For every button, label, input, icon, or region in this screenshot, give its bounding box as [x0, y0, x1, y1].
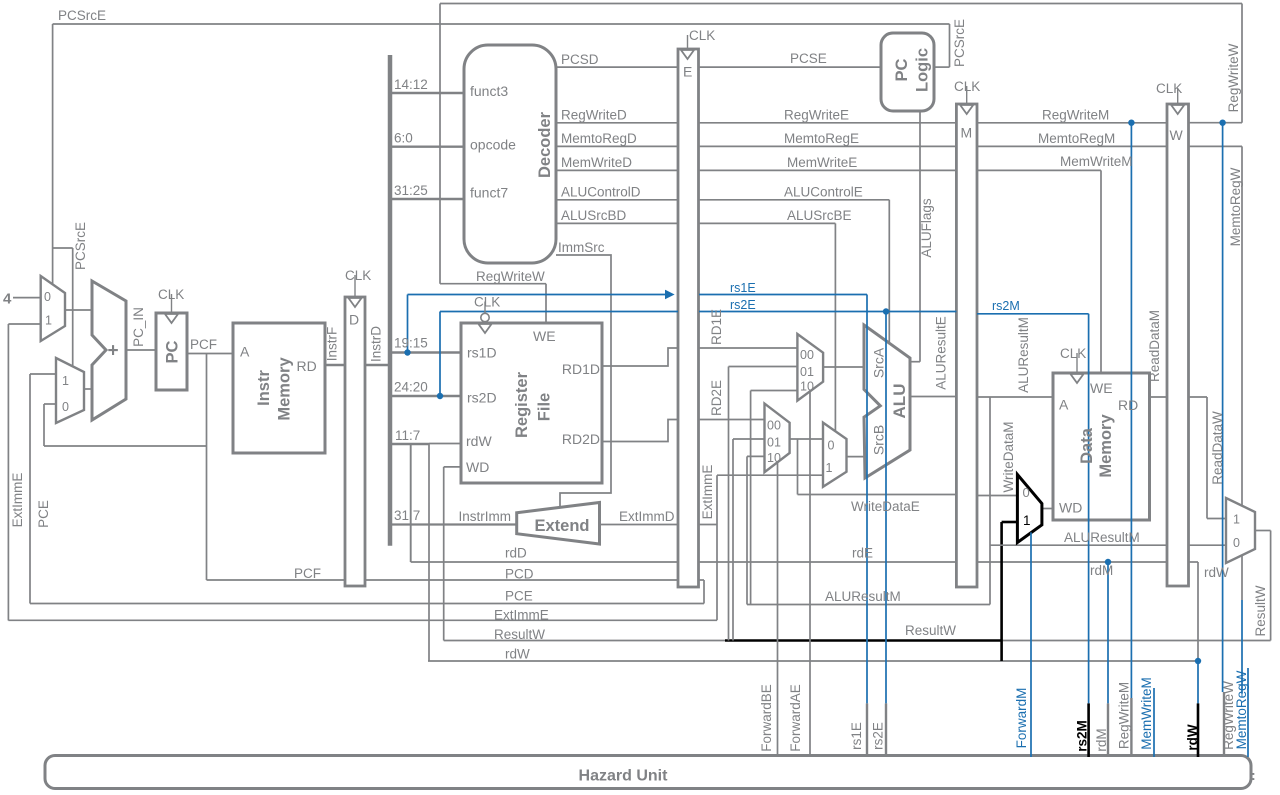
svg-text:CLK: CLK — [474, 295, 500, 310]
svg-text:CLK: CLK — [345, 268, 371, 283]
svg-text:ALUSrcBD: ALUSrcBD — [561, 208, 627, 223]
wire ALUResultM riser to forward mux A input 10 — [750, 391, 752, 605]
wire PCF to mux M2 input 0 — [44, 403, 56, 405]
wire PCE jog at E register — [703, 580, 705, 604]
svg-text:6:0: 6:0 — [394, 131, 413, 146]
wire MemtoRegW from W register — [1189, 145, 1243, 147]
Instr Memory block — [233, 323, 325, 453]
svg-text:rdW: rdW — [1204, 565, 1229, 580]
wire PCSD — [556, 66, 678, 68]
wire ALUResultM tap from ALUResult — [989, 397, 991, 605]
wire rdW from W register — [1189, 561, 1199, 563]
svg-text:ALUSrcBE: ALUSrcBE — [787, 208, 852, 223]
svg-text:RD: RD — [1118, 397, 1138, 413]
wire RegWriteW from W register — [1189, 122, 1243, 124]
CLK triangle — [479, 324, 492, 333]
wire ALUControlD — [556, 199, 678, 201]
wire ResultW riser to forward mux A input 01 — [728, 367, 730, 641]
wire store mux input 1 riser black — [1000, 522, 1003, 661]
junction rs1D on 19:15 tap — [404, 349, 410, 355]
wire RegWriteW left vertical — [439, 4, 441, 284]
svg-text:Logic: Logic — [914, 48, 932, 92]
junction rdM tap — [1105, 559, 1111, 565]
svg-text:rs1E: rs1E — [730, 281, 756, 295]
wire rs2E blue vertical to hazard — [885, 312, 887, 704]
svg-text:11:7: 11:7 — [395, 428, 420, 443]
svg-text:MemtoRegD: MemtoRegD — [561, 131, 637, 146]
wire PC Logic output — [934, 66, 950, 68]
svg-text:File: File — [536, 393, 554, 421]
svg-text:RD2D: RD2D — [562, 431, 600, 447]
svg-text:WriteDataM: WriteDataM — [1001, 421, 1016, 492]
wire ALUResultM riser to forward mux B input 10 — [746, 456, 748, 604]
wire ALUResultM to forward mux B input 10 — [747, 455, 765, 457]
svg-text:RegWriteW: RegWriteW — [1226, 43, 1241, 112]
wire MemWriteM horizontal — [977, 169, 1101, 171]
wire ExtImmE from E register — [699, 524, 717, 526]
svg-text:ReadDataW: ReadDataW — [1210, 411, 1225, 485]
svg-text:0: 0 — [1233, 536, 1240, 550]
wire MemtoRegW vertical gray part — [1241, 146, 1243, 600]
svg-text:InstrF: InstrF — [325, 327, 340, 362]
wire constant 4 to mux M1 input 0 — [13, 297, 41, 299]
wire ExtImmE horizontal — [8, 619, 717, 621]
wire ForwardM from hazard to store mux — [1030, 532, 1032, 757]
svg-text:PC_IN: PC_IN — [131, 307, 146, 347]
wire PCSrcE left vertical to mux M1 select — [52, 24, 54, 284]
svg-text:ALUResultM: ALUResultM — [1064, 530, 1140, 545]
svg-text:ReadDataM: ReadDataM — [1147, 310, 1162, 382]
wire opcode tap 6:0 — [392, 145, 464, 147]
svg-text:Hazard Unit: Hazard Unit — [579, 768, 669, 785]
CLK triangle — [681, 50, 694, 59]
svg-text:ExtImmE: ExtImmE — [494, 608, 549, 623]
wire rdW blue vertical — [1197, 661, 1199, 703]
svg-text:MemWriteM: MemWriteM — [1139, 677, 1154, 750]
wire ReadDataW from W register — [1189, 396, 1208, 398]
wire MemtoRegE — [699, 145, 956, 147]
svg-text:Memory: Memory — [276, 357, 294, 421]
wire ExtImmE riser — [716, 475, 718, 620]
wire ReadDataM to W register — [1150, 396, 1168, 398]
wire ALUSrcBE vertical to SrcB mux select — [834, 223, 836, 431]
wire PCF vertical below PC — [206, 354, 208, 581]
wire PCE to mux M2 input 1 — [30, 373, 56, 375]
wire WriteDataE riser — [797, 439, 799, 495]
wire RegWriteW top horizontal — [440, 3, 1242, 5]
wire PCF to D register — [207, 579, 346, 581]
svg-text:ImmSrc: ImmSrc — [558, 240, 605, 255]
svg-text:PC: PC — [893, 58, 911, 81]
result mux ResultW — [1226, 498, 1255, 563]
svg-text:RegWriteM: RegWriteM — [1042, 108, 1109, 123]
junction RegWriteW tap — [1219, 120, 1225, 126]
wire RD2E to forward mux B — [699, 419, 765, 421]
wire rdM blue vertical — [1107, 562, 1109, 703]
CLK triangle — [960, 105, 973, 114]
wire result mux output — [1255, 530, 1271, 532]
wire InstrD to bus — [365, 364, 390, 366]
wire ALUResultM to Data Memory A — [977, 396, 1053, 398]
pipeline register W — [1167, 104, 1189, 586]
svg-text:Register: Register — [513, 371, 531, 438]
svg-text:WE: WE — [533, 328, 556, 344]
svg-text:ALUResultM: ALUResultM — [825, 589, 901, 604]
svg-text:rdW: rdW — [505, 647, 530, 662]
wire MemtoRegW blue vertical — [1241, 600, 1243, 694]
wire SrcB into ALU — [847, 456, 865, 458]
svg-text:RD1D: RD1D — [562, 361, 600, 377]
junction rs2E branch — [883, 308, 889, 314]
junction rs2D on 24:20 tap — [437, 393, 443, 399]
wire rs2M black stub into hazard — [1087, 703, 1090, 757]
wire rdW into Register File — [429, 443, 461, 445]
svg-text:ForwardM: ForwardM — [1014, 688, 1029, 749]
wire RegWriteW blue vertical — [1222, 123, 1224, 692]
svg-text:MemtoRegW: MemtoRegW — [1228, 167, 1243, 246]
svg-text:InstrD: InstrD — [369, 326, 384, 362]
svg-text:14:12: 14:12 — [394, 77, 428, 92]
svg-text:ALUFlags: ALUFlags — [919, 198, 934, 258]
svg-text:MemWriteD: MemWriteD — [561, 155, 632, 170]
wire forward mux B output to SrcB mux input 0 — [790, 438, 823, 440]
wire rs2D tap 24:20 — [392, 395, 461, 397]
svg-text:rs2M: rs2M — [1075, 720, 1090, 752]
CLK wire — [1177, 88, 1179, 104]
CLK wire — [687, 35, 689, 49]
wire ALUResultM to forward mux A input 10 — [751, 390, 798, 392]
ALU — [864, 325, 910, 478]
CLK wire — [966, 86, 968, 104]
CLK triangle — [165, 314, 178, 323]
svg-text:ALUControlD: ALUControlD — [561, 185, 641, 200]
svg-text:+: + — [108, 341, 119, 362]
mux M1 pc source — [41, 276, 65, 341]
svg-text:ResultW: ResultW — [905, 623, 956, 638]
wire rs2M blue vertical — [1088, 314, 1090, 704]
wire rs1E gray stub — [866, 703, 868, 757]
svg-text:01: 01 — [800, 365, 814, 379]
wire ResultW horizontal — [444, 640, 1271, 642]
svg-text:0: 0 — [828, 439, 835, 453]
svg-text:E: E — [683, 64, 692, 80]
svg-text:PCF: PCF — [190, 337, 217, 352]
svg-text:funct7: funct7 — [470, 185, 508, 201]
wire WD into Register File — [444, 466, 461, 468]
svg-text:WD: WD — [466, 459, 489, 475]
svg-text:rs1D: rs1D — [467, 345, 497, 361]
svg-text:00: 00 — [800, 348, 814, 362]
svg-text:RegWriteD: RegWriteD — [561, 108, 627, 123]
svg-text:0: 0 — [44, 290, 51, 304]
svg-text:Extend: Extend — [534, 517, 589, 535]
svg-text:ExtImmD: ExtImmD — [619, 509, 675, 524]
wire SrcA into ALU — [823, 366, 864, 368]
svg-text:ResultW: ResultW — [1253, 585, 1268, 636]
wire ReadDataW to result mux input 1 — [1207, 518, 1226, 520]
svg-text:WriteDataE: WriteDataE — [851, 499, 920, 514]
wire rs1D tap 19:15 — [392, 351, 461, 353]
svg-text:opcode: opcode — [470, 137, 516, 153]
wire rs2D blue horizontal — [440, 311, 678, 313]
svg-text:01: 01 — [767, 436, 781, 450]
wire PC_IN adder to PC — [126, 349, 156, 351]
wire funct7 tap 31:25 — [392, 198, 464, 200]
wire rs2D blue riser — [439, 312, 441, 397]
CLK wire — [484, 302, 486, 324]
wire ForwardBE from Hazard Unit to forward mux B — [777, 462, 779, 757]
svg-text:24:20: 24:20 — [394, 380, 428, 395]
Data Memory block — [1053, 373, 1150, 520]
svg-text:MemWriteE: MemWriteE — [787, 155, 857, 170]
svg-text:Memory: Memory — [1097, 414, 1115, 478]
svg-text:PCSE: PCSE — [790, 51, 827, 66]
CLK triangle — [1171, 105, 1184, 114]
pipeline register M — [956, 104, 977, 587]
wire WriteDataE to M register — [798, 494, 957, 496]
wire ALUControlE vertical to ALU — [888, 200, 890, 343]
svg-text:Instr: Instr — [255, 370, 273, 406]
svg-text:RegWriteW: RegWriteW — [476, 269, 545, 284]
wire PCF PC to Instr Memory — [187, 353, 233, 355]
svg-text:CLK: CLK — [689, 28, 715, 43]
Hazard Unit block — [45, 756, 1251, 789]
svg-text:SrcA: SrcA — [871, 347, 887, 378]
svg-text:RegWriteM: RegWriteM — [1117, 682, 1132, 749]
svg-text:A: A — [240, 344, 250, 360]
wire rdW horizontal line — [428, 660, 1198, 662]
wire MemtoRegD — [556, 145, 678, 147]
arrow rs1D into E register — [666, 291, 674, 299]
svg-text:10: 10 — [800, 380, 814, 394]
wire RegWriteM gray stub — [1130, 698, 1132, 757]
wire mux M1 output to adder — [65, 309, 92, 311]
wire ExtImmD to E register — [600, 524, 679, 526]
svg-text:PCE: PCE — [505, 589, 533, 604]
wire PCSE to PC Logic — [699, 66, 881, 68]
wire RegWriteD — [556, 122, 678, 124]
wire InstrF — [325, 364, 345, 366]
svg-text:rdM: rdM — [1094, 728, 1109, 751]
svg-text:rdE: rdE — [852, 546, 873, 561]
svg-text:31:25: 31:25 — [394, 183, 428, 198]
wire PCE left riser — [29, 374, 31, 604]
svg-text:PCSrcE: PCSrcE — [952, 19, 967, 67]
svg-text:rs2E: rs2E — [871, 722, 886, 750]
wire ReadDataW vertical — [1206, 397, 1208, 519]
wire MemWriteE — [699, 169, 956, 171]
PC register — [156, 313, 187, 390]
wire MemtoRegM — [977, 145, 1167, 147]
svg-text:MemtoRegW: MemtoRegW — [1234, 670, 1249, 749]
wire ExtImmE to mux M1 input 1 — [8, 323, 40, 325]
svg-text:ALU: ALU — [890, 384, 909, 419]
svg-text:SrcB: SrcB — [871, 425, 887, 455]
wire rs2E blue — [699, 311, 956, 313]
forward mux A SrcA — [797, 334, 823, 401]
wire rdD tap 11:7 — [392, 443, 429, 445]
wire rs2M blue — [977, 313, 1089, 315]
svg-text:RD2E: RD2E — [709, 380, 724, 416]
mux M2 pc source — [56, 358, 84, 423]
wire RegWriteW gray stub — [1223, 692, 1225, 757]
svg-text:PC: PC — [164, 340, 182, 363]
svg-text:31:7: 31:7 — [394, 508, 420, 523]
Extend block — [517, 503, 600, 545]
wire PCE horizontal — [30, 603, 704, 605]
svg-text:rdM: rdM — [1090, 563, 1113, 578]
mux store data ForwardM black — [1017, 475, 1042, 543]
instruction bus bar — [388, 55, 393, 546]
wire rdM to W register — [977, 561, 1167, 563]
svg-text:ALUResultM: ALUResultM — [1016, 317, 1031, 393]
wire rdE to M register — [699, 561, 956, 563]
svg-text::: : — [1251, 767, 1256, 783]
wire rs2E gray stub — [885, 703, 887, 757]
wire MemtoRegW blue into hazard — [1247, 668, 1249, 757]
wire PCF horizontal — [44, 445, 207, 447]
wire ALUFlags vertical to PC Logic — [919, 111, 921, 362]
wire ALUResultE to M register — [910, 396, 956, 398]
svg-text:RD1E: RD1E — [709, 309, 724, 345]
adder — [92, 281, 126, 420]
Decoder block — [464, 45, 556, 263]
svg-text:PCD: PCD — [505, 567, 534, 582]
svg-text:1: 1 — [1023, 513, 1031, 528]
svg-text:ForwardBE: ForwardBE — [759, 684, 774, 752]
svg-text:WD: WD — [1059, 500, 1082, 516]
svg-text:Data: Data — [1078, 427, 1096, 464]
CLK triangle — [1071, 374, 1084, 383]
forward mux B SrcB — [765, 404, 790, 473]
wire ResultW riser to forward mux B input 01 — [732, 439, 734, 641]
CLK wire — [354, 275, 356, 297]
wire ALUFlags from ALU — [910, 361, 920, 363]
svg-text:ResultW: ResultW — [494, 627, 545, 642]
svg-text:CLK: CLK — [1060, 346, 1086, 361]
wire ResultW riser to WD — [443, 467, 445, 641]
wire ALUControlE horizontal — [699, 199, 889, 201]
svg-text:ForwardAE: ForwardAE — [788, 684, 803, 752]
wire rdM gray stub — [1107, 703, 1109, 757]
wire RD1D to E register — [602, 348, 678, 366]
wire rdW vertical — [1197, 562, 1199, 661]
wire InstrImm tap 31:7 to Extend — [392, 523, 517, 525]
CLK wire — [171, 294, 173, 313]
svg-text:1: 1 — [62, 374, 69, 388]
wire ALUSrcBD — [556, 222, 678, 224]
wire MemWriteM vertical to Data Memory WE — [1100, 170, 1102, 373]
wire PCF riser — [43, 404, 45, 446]
wire rdW black stub into hazard — [1197, 703, 1200, 757]
svg-text:4: 4 — [3, 291, 12, 308]
wire rs1E blue — [699, 294, 867, 296]
wire ALUResultM to result mux input 0 — [990, 544, 1226, 546]
svg-text:ALUResultE: ALUResultE — [934, 316, 949, 390]
svg-text:rs1E: rs1E — [849, 722, 864, 750]
wire ALUResultM horizontal — [747, 604, 990, 606]
CLK triangle — [349, 298, 362, 307]
svg-text:ExtImmE: ExtImmE — [10, 473, 25, 528]
svg-text:D: D — [349, 312, 359, 328]
svg-text:PCF: PCF — [294, 566, 321, 581]
wire RegWriteW horizontal to WE — [440, 283, 546, 285]
wire ResultW black highlighted segment — [725, 639, 1002, 642]
pipeline register D — [345, 297, 365, 586]
svg-text:RegWriteE: RegWriteE — [784, 108, 849, 123]
svg-text:0: 0 — [1023, 485, 1030, 500]
wire RD1E to forward mux A — [699, 347, 797, 349]
wire PCSrcE right vertical — [949, 24, 951, 67]
svg-text:rs2E: rs2E — [730, 298, 756, 312]
svg-text:00: 00 — [767, 419, 781, 433]
svg-text:ALUControlE: ALUControlE — [784, 185, 863, 200]
wire RegWriteW vertical into Register File WE — [545, 284, 547, 323]
wire ResultW riser from result mux — [1270, 531, 1272, 641]
junction rdW tap — [1195, 658, 1201, 664]
pipeline register E — [678, 49, 699, 587]
wire ExtImmE left riser — [7, 324, 9, 621]
wire ResultW to forward mux B input 01 — [733, 438, 765, 440]
mux SrcB select ALUSrcBE — [823, 423, 847, 487]
svg-text:rdD: rdD — [505, 546, 527, 561]
svg-text:1: 1 — [45, 314, 52, 328]
wire rdW riser to rdW line — [428, 444, 430, 662]
wire ResultW to forward mux A input 01 — [729, 366, 798, 368]
svg-text:MemtoRegM: MemtoRegM — [1038, 131, 1115, 146]
wire store mux output to Data Memory WD — [1042, 508, 1053, 510]
svg-text:1: 1 — [1233, 513, 1240, 527]
wire funct3 tap 14:12 — [392, 92, 464, 94]
svg-text:Decoder: Decoder — [536, 111, 554, 178]
svg-text:PCSrcE: PCSrcE — [58, 8, 106, 23]
svg-text:RD: RD — [297, 358, 317, 374]
svg-text:PCE: PCE — [36, 500, 51, 528]
wire ForwardAE from Hazard Unit to forward mux A — [809, 390, 811, 757]
svg-text:PCSD: PCSD — [561, 52, 599, 67]
wire ImmSrc to Extend — [556, 255, 611, 506]
wire rs1E blue vertical to hazard — [866, 295, 868, 704]
wire MemWriteM blue stub into hazard — [1153, 688, 1155, 757]
wire rdD riser — [410, 445, 412, 563]
wire rs1D blue horizontal — [408, 294, 666, 296]
wire RegWriteM — [977, 122, 1167, 124]
svg-text:rdW: rdW — [466, 433, 492, 449]
svg-text:rdW: rdW — [1185, 724, 1200, 751]
wire RegWriteM blue vertical — [1130, 123, 1132, 698]
junction RegWriteM tap — [1128, 120, 1134, 126]
wire PCD D to E register — [364, 579, 678, 581]
svg-text:1: 1 — [826, 461, 833, 475]
wire RegWriteE — [699, 122, 956, 124]
wire rs1D blue riser — [407, 295, 409, 353]
CLK wire — [1076, 353, 1078, 373]
svg-text:rs2D: rs2D — [467, 390, 497, 406]
wire mux M2 output to adder — [84, 388, 92, 390]
svg-text:WE: WE — [1090, 380, 1113, 396]
svg-text:MemWriteM: MemWriteM — [1060, 154, 1133, 169]
svg-text:0: 0 — [62, 400, 69, 414]
svg-text:MemtoRegE: MemtoRegE — [784, 131, 859, 146]
svg-text:19:15: 19:15 — [394, 336, 428, 351]
svg-text:W: W — [1170, 127, 1184, 143]
svg-text:rs2M: rs2M — [992, 299, 1020, 313]
svg-text:funct3: funct3 — [470, 83, 508, 99]
svg-text:A: A — [1059, 397, 1069, 413]
svg-text:InstrImm: InstrImm — [459, 509, 512, 524]
wire ExtImmE to SrcB mux input 1 — [717, 474, 823, 476]
PC Logic block — [881, 33, 934, 111]
